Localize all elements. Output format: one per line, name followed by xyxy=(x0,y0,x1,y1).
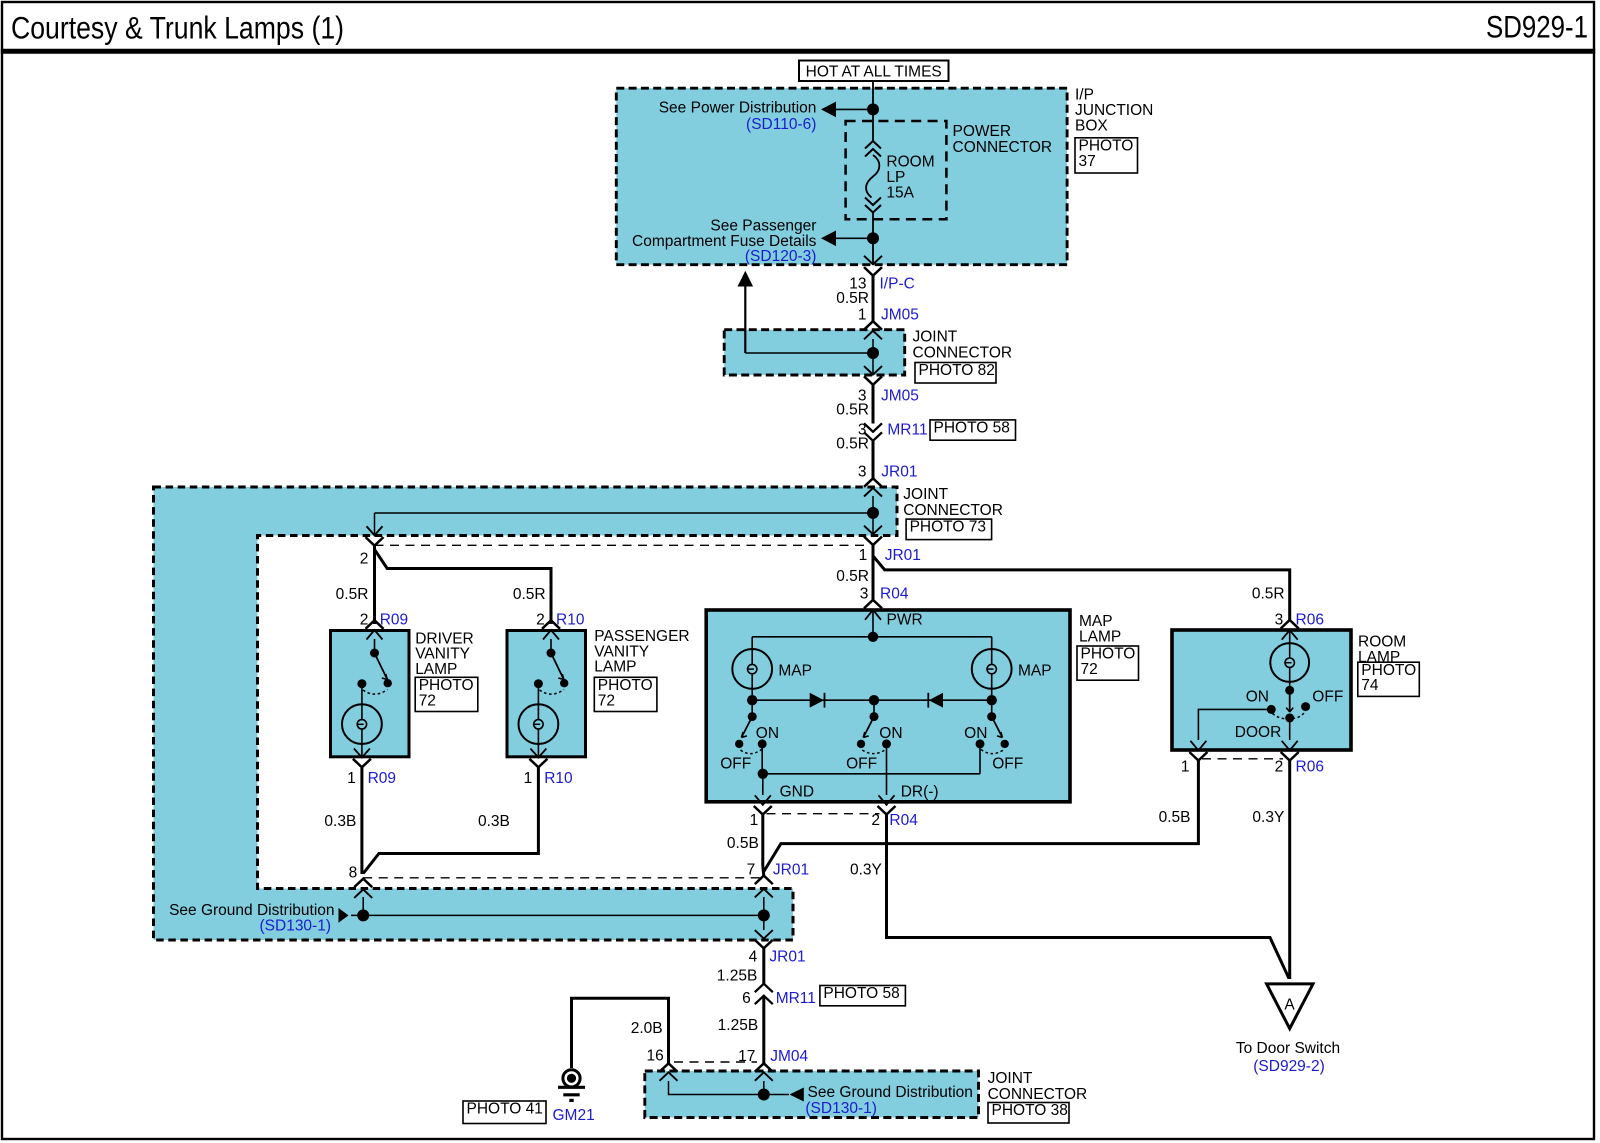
connector pin 1 R04 chevron xyxy=(754,806,772,815)
svg-text:37: 37 xyxy=(1079,153,1096,170)
see ground distribution arrow (left) xyxy=(339,908,349,923)
svg-text:CONNECTOR: CONNECTOR xyxy=(903,502,1003,519)
svg-text:72: 72 xyxy=(598,692,615,709)
wire 0.3B driver xyxy=(360,767,363,874)
wire map lamp middle bus xyxy=(752,699,992,701)
node PWR junction in map lamp xyxy=(868,632,878,642)
svg-text:3: 3 xyxy=(860,586,869,603)
GND net inside map lamp xyxy=(761,744,763,774)
svg-text:ON: ON xyxy=(964,725,987,742)
svg-text:0.5R: 0.5R xyxy=(836,402,869,419)
svg-text:1.25B: 1.25B xyxy=(717,967,758,984)
ground wire 2.0B from GM21 xyxy=(572,998,669,1068)
node GND junction in map lamp xyxy=(758,769,768,779)
connector pin 1 JM05 chevrons xyxy=(864,321,882,330)
svg-text:PHOTO 58: PHOTO 58 xyxy=(934,420,1010,437)
svg-text:ROOM: ROOM xyxy=(1358,633,1406,650)
svg-text:LAMP: LAMP xyxy=(594,659,636,676)
svg-text:OFF: OFF xyxy=(1312,689,1343,706)
svg-text:0.5R: 0.5R xyxy=(836,568,869,585)
connector pin 2 R04 chevron xyxy=(878,806,896,815)
svg-text:HOT AT ALL TIMES: HOT AT ALL TIMES xyxy=(806,63,942,80)
middle bus with diodes xyxy=(751,688,753,701)
dashed pin line JR01 pins 2-1 xyxy=(375,544,867,546)
wire 0.5R segment xyxy=(872,276,875,322)
connector pin 2 R10 chevron xyxy=(542,620,560,629)
joint connector JM04 box (blue dashed) xyxy=(645,1071,979,1118)
wire pin2 down to driver vanity lamp xyxy=(373,546,376,624)
pin 1 R10 xyxy=(529,759,547,768)
svg-text:(SD929-2): (SD929-2) xyxy=(1253,1058,1325,1075)
svg-text:0.5R: 0.5R xyxy=(513,586,546,603)
dashed pin line JR01 pins 8-7 xyxy=(363,877,764,879)
wire fuse to lower junction xyxy=(872,212,874,238)
joint connector JR01 region: top band xyxy=(154,487,898,536)
pin 2 arrowhead + chevron (vanity branch) xyxy=(367,526,383,535)
svg-text:1: 1 xyxy=(524,770,533,787)
svg-text:2: 2 xyxy=(871,812,880,829)
wire inside joint connector xyxy=(872,339,874,353)
svg-text:PHOTO 38: PHOTO 38 xyxy=(992,1102,1068,1119)
svg-text:See Passenger: See Passenger xyxy=(710,218,816,235)
svg-text:JR01: JR01 xyxy=(773,861,809,878)
header rule xyxy=(1,49,1595,54)
svg-text:See Ground Distribution: See Ground Distribution xyxy=(169,902,334,919)
svg-text:R10: R10 xyxy=(544,770,573,787)
JR01 region dashed borders xyxy=(154,487,898,940)
svg-text:R09: R09 xyxy=(380,611,408,628)
node middle bus junction xyxy=(869,695,879,705)
wire 1.25B JR01 pin4 to MR11 xyxy=(762,948,765,984)
power connector dashed box xyxy=(846,121,947,219)
passenger vanity lamp box R10 xyxy=(507,631,586,757)
svg-text:0.5R: 0.5R xyxy=(1252,586,1285,603)
wire/arrow: See Passenger Compartment Fuse Details xyxy=(834,237,873,239)
svg-text:R10: R10 xyxy=(556,611,585,628)
svg-text:I/P-C: I/P-C xyxy=(880,275,915,292)
node: power distribution junction xyxy=(867,103,879,115)
wires inside JR01 top band xyxy=(872,496,874,513)
bulb passenger vanity xyxy=(537,684,539,705)
svg-text:OFF: OFF xyxy=(992,755,1023,772)
svg-text:0.5R: 0.5R xyxy=(836,436,869,453)
svg-text:PHOTO 41: PHOTO 41 xyxy=(467,1101,543,1118)
photo 73 box xyxy=(906,519,992,540)
svg-text:POWER: POWER xyxy=(953,123,1012,140)
bulb room lamp xyxy=(1289,630,1291,646)
connector pin 2 R09 chevron xyxy=(366,620,384,629)
svg-text:0.3Y: 0.3Y xyxy=(1252,809,1284,826)
svg-text:JR01: JR01 xyxy=(881,464,917,481)
svg-text:MAP: MAP xyxy=(778,662,812,679)
svg-text:7: 7 xyxy=(747,861,756,878)
pin 1 exit chevrons xyxy=(864,526,882,535)
svg-text:CONNECTOR: CONNECTOR xyxy=(988,1086,1088,1103)
svg-text:1.25B: 1.25B xyxy=(718,1017,759,1034)
svg-text:JOINT: JOINT xyxy=(913,328,958,345)
map bulb left xyxy=(732,649,772,689)
svg-text:CONNECTOR: CONNECTOR xyxy=(953,139,1053,156)
svg-text:JR01: JR01 xyxy=(769,948,805,965)
svg-text:74: 74 xyxy=(1361,677,1379,694)
wires in bottom band xyxy=(362,897,364,910)
pin 1 R09 xyxy=(353,759,371,768)
svg-text:DR(-): DR(-) xyxy=(901,783,939,800)
svg-text:PHOTO 58: PHOTO 58 xyxy=(823,985,899,1002)
bulb driver vanity xyxy=(361,684,363,705)
connector pin 17 JM04 chevrons xyxy=(755,1063,773,1072)
ground symbol GM21 xyxy=(563,1070,580,1087)
svg-text:JOINT: JOINT xyxy=(988,1070,1033,1087)
wire 0.5B room lamp to JR01 pin 7 xyxy=(764,761,1199,872)
svg-text:(SD130-1): (SD130-1) xyxy=(260,918,332,935)
svg-text:2.0B: 2.0B xyxy=(631,1020,663,1037)
svg-text:Courtesy & Trunk Lamps (1): Courtesy & Trunk Lamps (1) xyxy=(11,10,344,46)
svg-text:JOINT: JOINT xyxy=(903,486,948,503)
connector pin 16 JM04 chevrons xyxy=(660,1063,678,1072)
svg-text:DOOR: DOOR xyxy=(1235,724,1282,741)
svg-text:1: 1 xyxy=(858,307,867,324)
svg-text:R09: R09 xyxy=(368,770,396,787)
svg-text:(SD130-1): (SD130-1) xyxy=(805,1100,877,1117)
svg-text:MR11: MR11 xyxy=(776,990,816,1007)
svg-text:MAP: MAP xyxy=(1018,662,1052,679)
wire branch JR01 to room lamp xyxy=(873,545,1290,620)
wire map lamp top bus xyxy=(752,636,992,638)
svg-text:See Power Distribution: See Power Distribution xyxy=(659,100,817,117)
fuse ROOM LP 15A xyxy=(865,141,881,149)
svg-text:72: 72 xyxy=(1081,661,1098,678)
svg-text:16: 16 xyxy=(647,1047,664,1064)
svg-text:0.5B: 0.5B xyxy=(727,835,759,852)
see ground distribution arrow (in JM04) xyxy=(790,1088,804,1102)
switch passenger vanity lamp xyxy=(550,639,552,653)
svg-text:I/P: I/P xyxy=(1075,87,1094,104)
diode D2 (points left) xyxy=(927,693,929,708)
svg-text:0.3B: 0.3B xyxy=(478,813,510,830)
svg-text:15A: 15A xyxy=(886,185,914,202)
switch room lamp ON/DOOR/OFF xyxy=(1289,690,1291,712)
wire PWR into map lamp xyxy=(872,611,874,637)
joint connector JM05 box (blue dashed) xyxy=(724,330,905,375)
DR(-) wire xyxy=(886,744,888,795)
svg-text:JM04: JM04 xyxy=(770,1048,808,1065)
node A triangle to door switch xyxy=(1267,984,1313,1029)
DOOR wire to pin 2 xyxy=(1289,718,1291,740)
svg-text:To Door Switch: To Door Switch xyxy=(1236,1040,1340,1057)
connector pin 13 I/P-C (exit of I/P box) xyxy=(864,256,882,264)
svg-text:(SD120-3): (SD120-3) xyxy=(745,248,817,265)
svg-text:72: 72 xyxy=(419,692,436,709)
node right bus junction xyxy=(987,695,997,705)
svg-text:ON: ON xyxy=(756,725,779,742)
wire/arrow: See Power Distribution xyxy=(834,108,873,110)
branch wire to passenger vanity lamp xyxy=(375,549,552,624)
svg-text:BOX: BOX xyxy=(1075,118,1108,135)
wire 1.25B MR11 to JM04 xyxy=(762,996,765,1064)
svg-text:R04: R04 xyxy=(889,812,918,829)
svg-text:R04: R04 xyxy=(880,586,909,603)
svg-text:ON: ON xyxy=(1246,689,1269,706)
switch driver vanity lamp xyxy=(374,639,376,653)
switch S3 map lamp right xyxy=(991,700,993,716)
node: fuse details junction xyxy=(867,232,879,244)
photo 58 box xyxy=(930,420,1016,440)
svg-text:MR11: MR11 xyxy=(887,422,927,439)
svg-text:PHOTO 82: PHOTO 82 xyxy=(919,362,995,379)
svg-text:6: 6 xyxy=(742,990,751,1007)
svg-text:R06: R06 xyxy=(1296,759,1324,776)
photo 82 box xyxy=(915,363,996,384)
pin 3 JM05 exit xyxy=(872,353,874,374)
node inside JM05 xyxy=(867,347,879,359)
wire down to I/P box edge xyxy=(872,238,874,263)
wire: HOT AT ALL TIMES down to junction xyxy=(872,81,874,109)
map lamp box R04 xyxy=(706,610,1070,802)
pin 4 JR01 exit xyxy=(755,940,773,949)
wire 0.5R xyxy=(872,441,875,479)
svg-text:LAMP: LAMP xyxy=(1079,629,1121,646)
arrow up to fuse details note xyxy=(744,284,746,353)
svg-text:1: 1 xyxy=(859,547,868,564)
svg-text:OFF: OFF xyxy=(720,755,751,772)
joint connector JR01 region: bottom band xyxy=(154,889,794,941)
room lamp box R06 xyxy=(1172,630,1351,750)
svg-text:PWR: PWR xyxy=(887,611,923,628)
svg-text:JUNCTION: JUNCTION xyxy=(1075,102,1153,119)
connector pin 2 R06 chevron xyxy=(1281,752,1299,761)
svg-text:0.5R: 0.5R xyxy=(336,586,369,603)
svg-text:JR01: JR01 xyxy=(885,547,921,564)
svg-text:JM05: JM05 xyxy=(881,307,919,324)
wire 0.5R xyxy=(872,385,875,424)
svg-text:See Ground Distribution: See Ground Distribution xyxy=(808,1084,973,1101)
node in JR01 xyxy=(867,507,879,519)
svg-text:OFF: OFF xyxy=(846,755,877,772)
svg-text:CONNECTOR: CONNECTOR xyxy=(913,344,1013,361)
ON wire to pin 1 xyxy=(1198,709,1271,740)
svg-text:(SD110-6): (SD110-6) xyxy=(746,116,816,133)
wire JR01 pin1 down to map lamp xyxy=(872,545,875,600)
svg-text:MAP: MAP xyxy=(1079,613,1113,630)
svg-text:2: 2 xyxy=(536,611,545,628)
svg-text:2: 2 xyxy=(1275,759,1284,776)
svg-text:PHOTO 73: PHOTO 73 xyxy=(910,519,986,536)
map bulb right xyxy=(972,649,1012,689)
wire 0.5B from GND pin to JR01 pin7 xyxy=(761,815,764,867)
svg-text:0.3B: 0.3B xyxy=(324,813,356,830)
svg-text:1: 1 xyxy=(347,770,356,787)
svg-text:GND: GND xyxy=(780,783,814,800)
svg-text:0.5B: 0.5B xyxy=(1159,809,1191,826)
wire DR(-) to door switch xyxy=(887,815,1290,979)
switch S1 map lamp left xyxy=(751,700,753,716)
connector pin 3 JR01 chevrons xyxy=(864,478,882,487)
wires inside JM04 xyxy=(669,1081,764,1095)
joint connector JR01 region: left column xyxy=(154,487,258,940)
svg-text:A: A xyxy=(1284,997,1295,1014)
svg-text:LAMP: LAMP xyxy=(415,661,457,678)
wire 0.3Y room lamp to door switch xyxy=(1288,761,1291,980)
driver vanity lamp box R09 xyxy=(331,631,410,757)
svg-text:1: 1 xyxy=(1181,759,1190,776)
wire into fuse xyxy=(872,109,874,142)
svg-text:LP: LP xyxy=(886,169,905,186)
switch S2 map lamp middle xyxy=(873,700,875,716)
wire 0.3B passenger xyxy=(363,767,538,873)
label box HOT AT ALL TIMES xyxy=(799,61,949,82)
I/P junction box (blue dashed) xyxy=(616,88,1067,265)
photo 37 box xyxy=(1075,138,1138,173)
svg-text:0.3Y: 0.3Y xyxy=(850,861,882,878)
svg-text:R06: R06 xyxy=(1296,611,1324,628)
svg-text:8: 8 xyxy=(349,865,358,882)
svg-text:SD929-1: SD929-1 xyxy=(1486,8,1588,44)
svg-text:3: 3 xyxy=(858,464,867,481)
svg-text:GM21: GM21 xyxy=(553,1107,595,1124)
svg-text:ROOM: ROOM xyxy=(886,154,934,171)
diode D1 (points right) xyxy=(810,693,824,708)
svg-text:1: 1 xyxy=(750,812,759,829)
svg-text:ON: ON xyxy=(879,725,902,742)
svg-text:0.5R: 0.5R xyxy=(836,290,869,307)
connector pin 1 R06 chevron xyxy=(1189,752,1207,761)
svg-text:4: 4 xyxy=(749,948,758,965)
svg-text:JM05: JM05 xyxy=(881,387,919,404)
svg-text:2: 2 xyxy=(360,550,369,567)
node left bus junction xyxy=(747,695,757,705)
